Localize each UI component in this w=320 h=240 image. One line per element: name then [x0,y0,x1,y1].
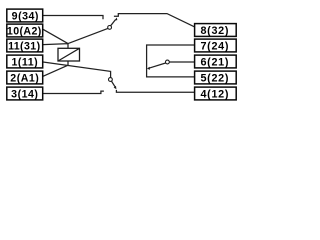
svg-text:3(14): 3(14) [11,88,38,100]
svg-text:7(24): 7(24) [200,41,229,53]
svg-text:10(A2): 10(A2) [7,25,42,37]
svg-text:2(A1): 2(A1) [10,72,39,84]
svg-text:8(32): 8(32) [200,25,229,37]
svg-text:6(21): 6(21) [200,57,229,69]
svg-text:11(31): 11(31) [8,40,40,52]
svg-text:4(12): 4(12) [200,89,229,101]
svg-text:5(22): 5(22) [200,73,229,85]
svg-text:9(34): 9(34) [12,10,39,22]
svg-text:1(11): 1(11) [11,56,38,68]
